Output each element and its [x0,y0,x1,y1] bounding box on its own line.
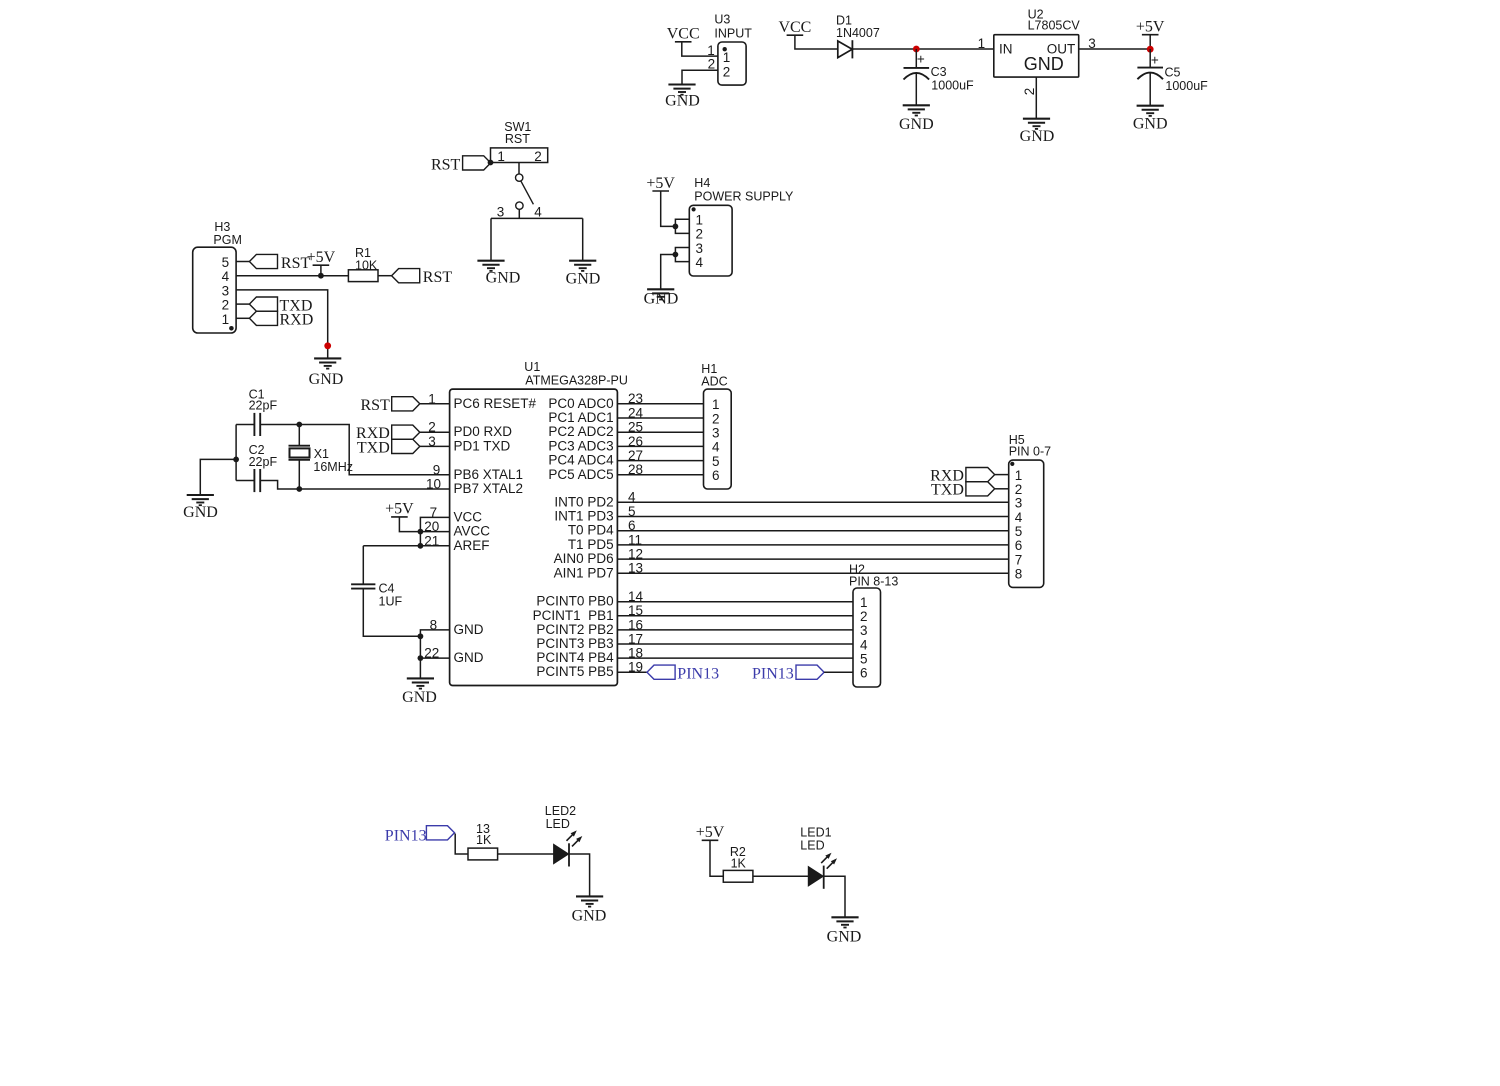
label D1 [836,13,852,27]
svg-text:GND: GND [1133,115,1168,132]
junction dot (H4 gnd) [673,252,679,258]
svg-text:GND: GND [572,907,607,924]
svg-text:5: 5 [628,504,636,519]
wire lower contact stub [518,209,520,218]
net flag TXD (U1 pin3) [392,439,420,453]
ground (LED1) [831,917,858,927]
label H3 [214,220,230,234]
pin number 6 (H1) [712,468,720,483]
label IN (U2) [999,42,1013,57]
pin number 7 (U1) [430,505,438,520]
pin name PCINT2 PB2 (U1 right) [536,622,613,637]
svg-text:1: 1 [1015,468,1023,483]
junction dot (SW1 pin1) [488,160,494,166]
svg-text:+: + [1151,52,1159,67]
svg-text:U3: U3 [714,13,730,27]
svg-text:PIN 8-13: PIN 8-13 [849,574,898,588]
wire U1 pin 14 to H2 [617,601,853,603]
label C4 [379,581,395,595]
pin number 5 (H3) [222,255,230,270]
svg-text:22: 22 [424,646,439,661]
svg-text:16: 16 [628,617,643,632]
svg-text:3: 3 [1015,496,1023,511]
ground (H4) [647,289,674,299]
svg-text:1: 1 [860,595,868,610]
pin name PC4 ADC4 (U1 right) [548,453,614,468]
svg-text:VCC: VCC [454,509,483,524]
net flag RXD (H3) [249,311,277,325]
svg-text:3: 3 [497,205,505,220]
svg-text:PCINT4 PB4: PCINT4 PB4 [536,650,614,665]
svg-text:INPUT: INPUT [714,27,752,41]
label PIN13 (LED2) [385,828,427,845]
wire H3 pin4 to R1 [236,275,348,277]
wire PIN13 to R13 [455,834,468,855]
net flag PIN13 (LED2) [426,826,454,840]
svg-text:7: 7 [430,505,438,520]
label GND (U2) [1020,128,1055,145]
pin number 1 (U3 outside) [707,43,715,58]
pin name PC3 ADC3 (U1 right) [548,438,613,453]
wire U1 pin 11 to H5 [617,544,1008,546]
svg-text:PIN13: PIN13 [752,665,794,682]
net flag PIN13 (from U1) [647,665,675,679]
svg-text:RST: RST [431,157,461,174]
svg-text:3: 3 [712,426,720,441]
pin number 28 (U1) [628,462,643,477]
connector H4 [689,205,732,276]
junction dot (X1 bottom) [296,486,302,492]
wire U1 to ground [419,658,421,678]
svg-text:GND: GND [183,504,218,521]
diode D1 [838,40,853,58]
svg-text:20: 20 [424,519,439,534]
regulator U2 [994,35,1079,77]
net flag RST (SW1) [463,156,491,170]
switch contact circle lower [516,202,523,209]
pin number 8 (U1) [430,617,438,632]
svg-text:X1: X1 [314,447,329,461]
svg-text:5: 5 [712,454,720,469]
svg-text:GND: GND [402,689,437,706]
wire U1 pin 17 to H2 [617,643,853,645]
label 1UF (C4) [379,595,403,609]
wire C4 bottom [363,589,420,637]
label H2 [849,563,865,577]
label C5 [1165,66,1181,80]
label RST (SW1) [505,132,530,146]
label GND (SW1 right) [566,270,601,287]
label RXD (U1 pin2) [356,425,390,442]
svg-text:1000uF: 1000uF [1165,79,1208,93]
wire U1 pin 28 to H1 [617,474,703,476]
pin name INT1 PD3 (U1 right) [554,509,613,524]
svg-text:VCC: VCC [778,19,811,36]
svg-text:PC6 RESET#: PC6 RESET# [454,396,537,411]
svg-text:26: 26 [628,434,643,449]
svg-text:10: 10 [426,477,441,492]
svg-text:4: 4 [222,269,230,284]
capacitor C4 [351,584,375,588]
wire R13 to LED2 [498,853,554,855]
label 1K (R2) [731,856,747,870]
svg-text:6: 6 [628,518,636,533]
wire X1 top stub [298,425,300,446]
pin name PCINT1 PB1 (U1 right) [533,608,614,623]
svg-text:25: 25 [628,420,643,435]
svg-text:11: 11 [628,532,642,547]
pin number 6 (U1) [628,518,636,533]
pin-1 marker dot U3 [723,47,727,51]
pin number 27 (U1) [628,448,643,463]
plus sign C3 [917,51,925,66]
svg-text:PCINT0 PB0: PCINT0 PB0 [536,594,613,609]
svg-text:18: 18 [628,646,643,661]
svg-text:PCINT5 PB5: PCINT5 PB5 [536,664,613,679]
wire U2 OUT to +5V [1079,48,1151,50]
svg-text:2: 2 [534,149,542,164]
wire VCC to D1 anode [795,35,838,49]
pin number 6 (H2) [860,666,868,681]
wire RXD to U1 pin2 [420,431,450,433]
label LED2 [545,804,576,818]
wire RXD flag to H5 pin1 [995,474,1009,476]
power flag +5V (U1) [385,501,414,518]
svg-text:PIN 0-7: PIN 0-7 [1009,444,1051,458]
svg-text:LED: LED [546,817,570,831]
pin number 16 (U1) [628,617,643,632]
pin number 3 (H2) [860,623,868,638]
wire +5V to H4 pins 1-2 [661,191,676,226]
svg-text:8: 8 [430,617,438,632]
pin name AIN0 PD6 (U1 right) [554,551,614,566]
pin number 4 (H3) [222,269,230,284]
label PIN13 (to H2) [752,665,794,682]
pin number 2 (H5) [1015,482,1023,497]
wire U1 pin 6 to H5 [617,530,1008,532]
svg-text:1: 1 [696,213,704,228]
power flag +5V (LED1) [696,824,725,841]
label X1 [314,447,329,461]
svg-text:4: 4 [628,490,636,505]
svg-text:ATMEGA328P-PU: ATMEGA328P-PU [525,374,628,388]
wire C1-C2 left bus [235,425,237,481]
wire C5 to ground [1149,73,1151,106]
label ADC [701,375,727,389]
svg-text:GND: GND [1024,54,1064,74]
wire SW1 pins 3-4 bus [491,217,583,219]
label RXD (H3) [280,312,314,329]
svg-text:GND: GND [1020,128,1055,145]
label C3 [931,65,947,79]
label GND (crystal) [183,504,218,521]
pin number 1 (H4) [696,213,704,228]
pin name PC0 ADC0 (U1 right) [548,396,613,411]
wire U1 pin 19 to PIN13 flag [617,671,647,673]
svg-text:4: 4 [534,205,542,220]
wire LED2 to ground [569,854,590,896]
label U1 [524,360,540,374]
svg-text:21: 21 [424,533,439,548]
pin number 19 (U1) [628,660,643,675]
wire VCC to U3 pin1 [682,42,718,56]
svg-text:2: 2 [1022,88,1037,96]
label PGM [213,233,241,247]
svg-text:22pF: 22pF [249,455,278,469]
svg-text:PCINT3 PB3: PCINT3 PB3 [536,636,613,651]
svg-text:PCINT1 PB1: PCINT1 PB1 [533,608,614,623]
pin number 1 (H3) [222,312,230,327]
label POWER SUPPLY [694,190,794,204]
svg-text:+5V: +5V [385,501,414,518]
resistor R13 [468,848,498,860]
connector H2 [853,588,881,687]
wire junction to C5 [1149,49,1151,68]
wire D1 cathode to U2 IN [852,48,993,50]
net flag RST (R1) [392,269,420,283]
svg-text:2: 2 [860,609,868,624]
label R1 [355,246,371,260]
wire PIN13 flag to H2 pin6 [824,671,853,673]
junction dot (H3 pin4) [318,273,324,279]
pin number 15 (U1) [628,603,643,618]
label OUT (U2) [1047,42,1076,57]
switch lever [521,181,534,204]
wire TXD to U1 pin3 [420,445,450,447]
pin number 2 (H2) [860,609,868,624]
wire TXD flag to H5 pin2 [995,488,1009,490]
svg-text:1N4007: 1N4007 [836,26,880,40]
pin number 3 (H4) [696,241,704,256]
svg-text:23: 23 [628,391,643,406]
svg-text:AVCC: AVCC [454,524,491,539]
switch contact circle upper [516,174,523,181]
svg-text:AIN1 PD7: AIN1 PD7 [554,565,614,580]
pin number 3 (H1) [712,426,720,441]
svg-text:PB6 XTAL1: PB6 XTAL1 [454,467,524,482]
pin name PC2 ADC2 (U1 right) [548,424,613,439]
net flag RXD (U1 pin2) [392,425,420,439]
wire junction to C3 [915,49,917,68]
wire C2 right to PB7 [260,481,449,490]
pin number 3 (U1) [428,434,436,449]
net flag PIN13 (to H2) [796,665,824,679]
pin number 17 (U1) [628,631,643,646]
svg-text:4: 4 [860,637,868,652]
svg-text:24: 24 [628,405,644,420]
label LED1 [800,826,831,840]
pin number 4 (H4) [696,255,704,270]
pin number 5 (U1) [628,504,636,519]
svg-text:PIN13: PIN13 [677,665,719,682]
svg-text:IN: IN [999,42,1013,57]
label 1N4007 [836,26,880,40]
label GND (H3) [309,371,344,388]
svg-text:1: 1 [222,312,230,327]
pin number 21 (U1) [424,533,439,548]
pin number 22 (U1) [424,646,439,661]
wire U1 pin 12 to H5 [617,558,1008,560]
svg-text:22pF: 22pF [249,398,278,412]
svg-text:GND: GND [827,929,862,946]
svg-text:1000uF: 1000uF [931,79,974,93]
pin name PB6 XTAL1 (U1 left) [454,467,524,482]
svg-text:6: 6 [712,468,720,483]
junction dot (GND8) [418,633,424,639]
svg-text:4: 4 [696,255,704,270]
label 10K (R1) [355,258,378,272]
svg-text:PC2 ADC2: PC2 ADC2 [548,424,613,439]
wire H3 pin5 [236,261,249,263]
svg-text:8: 8 [1015,567,1023,582]
label GND (C3) [899,116,934,133]
svg-text:+5V: +5V [1136,19,1165,36]
ground (H3) [314,358,341,368]
mcu U1 [450,389,618,685]
wire AVCC stub [420,531,449,533]
pin name PCINT4 PB4 (U1 right) [536,650,614,665]
label L7805CV [1028,18,1081,32]
pin number 13 (U1) [628,561,643,576]
svg-text:3: 3 [428,434,436,449]
pin name PB7 XTAL2 (U1 left) [454,481,524,496]
wire H4 to ground [661,255,676,290]
label GND (C5) [1133,115,1168,132]
svg-text:LED1: LED1 [800,826,831,840]
wire +5V stem (H3) [320,265,322,276]
svg-text:27: 27 [628,448,643,463]
wire U1 pin 18 to H2 [617,657,853,659]
wire caps to ground [200,459,236,495]
svg-text:4: 4 [712,440,720,455]
junction dot (X1 top) [296,422,302,428]
pin number 5 (H5) [1015,524,1023,539]
label H4 [694,176,710,190]
svg-text:6: 6 [1015,538,1023,553]
wire X1 top to PB6 [299,425,449,475]
wire R1 to RST flag [378,275,392,277]
svg-text:PC4 ADC4: PC4 ADC4 [548,453,614,468]
svg-text:L7805CV: L7805CV [1028,18,1081,32]
label GND (SW1 left) [486,270,521,287]
label LED (LED2) [546,817,570,831]
label GND (U2 inside) [1024,54,1064,74]
pin number 1 (SW1) [497,149,505,164]
label 1000uF (C3) [931,79,974,93]
svg-text:14: 14 [628,589,644,604]
label RXD (H5) [930,467,964,484]
junction dot (C3 top) [913,46,920,53]
wire C1 right to X1 top [260,424,299,426]
pin number 18 (U1) [628,646,643,661]
label ATMEGA328P-PU [525,374,628,388]
junction dot (AVCC) [418,529,424,535]
pin number 4 (H5) [1015,510,1023,525]
svg-text:3: 3 [222,283,230,298]
svg-text:RST: RST [360,397,390,414]
pin number 11 (U1) [628,532,642,547]
svg-text:GND: GND [454,650,484,665]
label 22pF (C2) [249,455,278,469]
label LED (LED1) [800,839,824,853]
label R2 [730,845,746,859]
pin name PD1 TXD (U1 left) [454,438,511,453]
wire U1 pin 26 to H1 [617,445,703,447]
wire C4 top [362,546,364,585]
wire R2 to LED1 [753,875,808,877]
pin number 3 (SW1) [497,205,505,220]
svg-text:RST: RST [505,132,530,146]
label RST (U1 pin1) [360,397,390,414]
power flag +5V (H3) [307,249,336,266]
wire +5V to AVCC [399,517,420,532]
svg-text:17: 17 [628,631,643,646]
capacitor C3 [904,68,930,80]
pin number 2 (H1) [712,411,720,426]
svg-text:5: 5 [860,651,868,666]
svg-text:1: 1 [428,391,436,406]
label H1 [701,362,717,376]
label TXD (H3) [280,298,313,315]
label 16MHz [313,460,353,474]
wire U1 pin 5 to H5 [617,516,1008,518]
resistor R2 [723,870,753,882]
label GND (LED2) [572,907,607,924]
pin number 14 (U1) [628,589,644,604]
label RST net (SW1) [431,157,461,174]
led LED1 [808,853,837,889]
junction dot (cap gnd) [233,457,239,463]
pin number 2 (U3 inside) [723,65,731,80]
svg-text:AREF: AREF [454,538,490,553]
svg-text:+5V: +5V [646,175,675,192]
svg-text:1K: 1K [476,833,492,847]
wire U1 pin 23 to H1 [617,403,703,405]
pin name GND (U1 left) [454,650,484,665]
pin name PCINT3 PB3 (U1 right) [536,636,613,651]
svg-text:5: 5 [222,255,230,270]
net flag TXD (H3) [249,297,277,311]
capacitor C5 [1137,68,1163,80]
svg-text:PB7 XTAL2: PB7 XTAL2 [454,481,524,496]
wire +5V stem [1149,35,1151,49]
pin name T1 PD5 (U1 right) [568,537,614,552]
svg-text:GND: GND [566,270,601,287]
svg-text:PD1 TXD: PD1 TXD [454,438,511,453]
svg-text:VCC: VCC [667,26,700,43]
pin-1 marker dot H3 [229,326,234,331]
ground (LED2) [576,896,603,906]
pin number 2 (U2, rotated) [1022,88,1037,96]
wire U1 gnd bracket [420,630,449,658]
label GND (U1) [402,689,437,706]
wire U1 power bracket [420,517,449,545]
svg-text:13: 13 [628,561,643,576]
wire AREF to C4 [363,545,449,547]
svg-text:T1 PD5: T1 PD5 [568,537,614,552]
label RST (H3 pin5) [281,255,311,272]
pin number 12 (U1) [628,547,643,562]
pin number 3 (H3) [222,283,230,298]
power flag VCC (D1 input) [778,19,811,36]
pin number 2 (U3 outside) [708,57,716,72]
pin name PCINT0 PB0 (U1 right) [536,594,613,609]
wire SW1 pin3 to ground [490,218,492,260]
wire U1 pin 16 to H2 [617,629,853,631]
pin number 7 (H5) [1015,552,1023,567]
ground (SW1 left) [477,261,504,271]
connector H3 [193,247,236,333]
